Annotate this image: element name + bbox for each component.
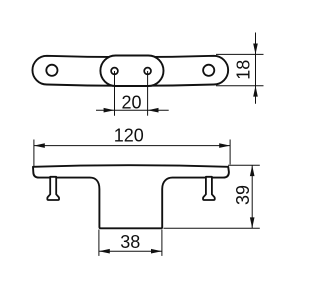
top view: left screw hole bbox=[46, 65, 57, 76]
dimension 120: right arrowhead bbox=[219, 143, 230, 148]
dimension 18: top extension line bbox=[216, 53, 264, 55]
top view: centre block top-face stadium bbox=[100, 56, 163, 87]
svg-text:38: 38 bbox=[120, 232, 140, 252]
dimension 120: left arrowhead bbox=[34, 143, 45, 148]
dimension 38: dimension line bbox=[99, 250, 162, 252]
dimension 38: right extension line bbox=[161, 230, 163, 256]
dimension 20: right arrowhead bbox=[148, 108, 159, 113]
svg-text:120: 120 bbox=[114, 125, 144, 145]
dimension 38: left extension line bbox=[98, 230, 100, 256]
dimension 39: upper arrowhead bbox=[250, 165, 255, 176]
dimension 38: left arrowhead bbox=[99, 249, 110, 254]
top view: outer plate stadium outline bbox=[32, 56, 228, 86]
dimension 18: lower arrowhead bbox=[253, 86, 258, 97]
top view: right small pin hole bbox=[144, 68, 151, 75]
top view: left small pin hole bbox=[111, 68, 118, 75]
top view: right screw hole bbox=[203, 65, 214, 76]
dimension 20: dimension line with outside arrows bbox=[96, 109, 169, 111]
dimension 120: dimension line bbox=[34, 145, 230, 147]
front view: plate with centre block outline bbox=[33, 165, 229, 228]
front view: right pin bbox=[203, 177, 215, 200]
dimension 18: vertical dimension line with outside arrows bbox=[255, 33, 257, 104]
dimension 18: upper arrowhead bbox=[253, 44, 258, 55]
svg-text:18: 18 bbox=[233, 60, 253, 80]
dimension 39: vertical dimension line bbox=[251, 165, 253, 228]
front view: left pin bbox=[47, 177, 59, 200]
svg-text:39: 39 bbox=[233, 185, 253, 205]
dimension 18: bottom extension line bbox=[216, 85, 264, 87]
dimension 20: left extension line from hole centre bbox=[114, 71, 116, 116]
dimension 120: right extension line bbox=[229, 140, 231, 165]
dimension 39: lower arrowhead bbox=[250, 217, 255, 228]
dimension 20: right extension line from hole centre bbox=[147, 71, 149, 116]
dimension 39: top extension line bbox=[228, 164, 260, 166]
svg-text:20: 20 bbox=[121, 92, 141, 112]
dimension 120: left extension line bbox=[33, 140, 35, 167]
dimension 38: right arrowhead bbox=[151, 249, 162, 254]
dimension 20: left arrowhead bbox=[104, 108, 115, 113]
dimension 39: bottom extension line bbox=[164, 227, 260, 229]
